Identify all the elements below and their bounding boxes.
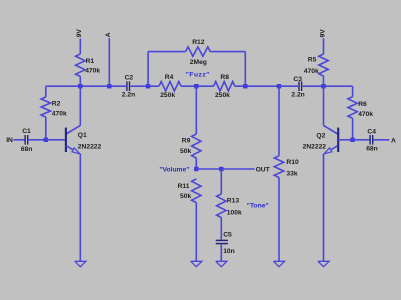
- wire rail to R9: [195, 86, 197, 134]
- wire volume to tone node: [196, 168, 221, 170]
- wire IN to C1: [13, 139, 25, 141]
- svg-text:"Tone": "Tone": [247, 203, 269, 210]
- wire loop top right: [210, 51, 245, 53]
- svg-text:C1: C1: [22, 128, 31, 135]
- svg-text:250k: 250k: [160, 92, 175, 99]
- node A stub: [107, 84, 111, 88]
- svg-text:68n: 68n: [21, 146, 33, 153]
- svg-text:Q1: Q1: [78, 132, 87, 139]
- wire R1 bottom: [79, 76, 81, 86]
- transistor Q2 2N2222: [303, 126, 353, 154]
- capacitor C3 2.2n: [291, 76, 304, 99]
- wire Q2 emitter to ground: [323, 154, 325, 261]
- svg-text:100k: 100k: [227, 210, 242, 217]
- resistor R1 470k: [76, 54, 101, 76]
- wire rail to R6 corner: [324, 85, 353, 87]
- svg-text:R12: R12: [192, 39, 205, 46]
- svg-text:A: A: [105, 32, 112, 37]
- node R10 branch: [277, 84, 281, 88]
- wire 9V to R5: [323, 38, 325, 54]
- svg-text:"Volume": "Volume": [159, 167, 189, 174]
- svg-text:9V: 9V: [76, 29, 83, 38]
- wire Q2 collector vertical: [323, 86, 325, 125]
- wire R10 to ground: [278, 178, 280, 262]
- wire to OUT: [221, 168, 254, 170]
- svg-text:IN: IN: [6, 137, 13, 144]
- svg-text:C3: C3: [293, 76, 302, 83]
- node R9 branch: [194, 84, 198, 88]
- capacitor C4 68n: [366, 128, 378, 152]
- svg-text:R4: R4: [165, 74, 174, 81]
- svg-text:2N2222: 2N2222: [78, 143, 102, 150]
- resistor R12 2Meg: [186, 39, 211, 66]
- svg-text:A: A: [391, 137, 396, 144]
- wire to C3: [279, 85, 298, 87]
- svg-text:50k: 50k: [180, 148, 191, 155]
- node volume wiper: [194, 167, 198, 171]
- node R5-Q2 collector: [321, 84, 325, 88]
- wire tone node to R13: [220, 169, 222, 194]
- net label Fuzz: [186, 72, 210, 79]
- node Q2 base junction: [350, 138, 354, 142]
- svg-text:OUT: OUT: [256, 167, 271, 174]
- svg-text:C2: C2: [125, 74, 134, 81]
- ground under R10: [273, 261, 284, 266]
- transistor Q1 2N2222: [46, 126, 102, 154]
- resistor R4 250k: [159, 74, 181, 99]
- ground under C5: [216, 261, 227, 266]
- capacitor C5 10n: [216, 232, 235, 255]
- resistor R13 100k: [217, 194, 242, 218]
- resistor R9 50k: [180, 134, 201, 158]
- svg-text:68n: 68n: [366, 146, 378, 153]
- svg-text:470k: 470k: [304, 68, 319, 75]
- svg-text:2.2n: 2.2n: [122, 92, 135, 99]
- wire node to C4: [353, 139, 370, 141]
- svg-text:R13: R13: [227, 197, 240, 204]
- svg-text:R8: R8: [220, 74, 229, 81]
- svg-text:2Meg: 2Meg: [190, 59, 207, 66]
- svg-text:R11: R11: [178, 183, 190, 190]
- wire A stub: [108, 38, 110, 86]
- wire C1 to node: [28, 139, 46, 141]
- wire rail left segment: [46, 85, 126, 87]
- wire Q1 collector vertical: [79, 86, 81, 125]
- wire Q1 emitter to ground: [79, 154, 81, 261]
- svg-text:C4: C4: [367, 128, 376, 135]
- port label OUT: [256, 167, 271, 174]
- resistor R10 33k: [274, 156, 299, 178]
- node R1-Q1 collector: [78, 84, 82, 88]
- svg-text:10n: 10n: [223, 248, 235, 255]
- wire R2 top corner: [45, 86, 47, 97]
- wire R6 bottom: [352, 118, 354, 140]
- capacitor C2 2.2n: [122, 74, 135, 98]
- wire loop top left: [148, 51, 185, 53]
- resistor R8 250k: [214, 74, 235, 99]
- node Q1 base junction: [44, 138, 48, 142]
- power label 9V left: [76, 29, 83, 38]
- svg-text:"Fuzz": "Fuzz": [186, 72, 210, 79]
- svg-text:R9: R9: [182, 137, 191, 144]
- svg-text:C5: C5: [223, 232, 232, 239]
- resistor R11 50k: [178, 179, 201, 203]
- node tone branch: [219, 167, 223, 171]
- ground under Q2: [318, 261, 329, 266]
- svg-text:R10: R10: [286, 159, 299, 166]
- svg-text:470k: 470k: [52, 110, 67, 117]
- wire R2 bottom: [45, 117, 47, 140]
- wire loop left vertical: [147, 52, 149, 87]
- net label A left: [105, 32, 112, 37]
- svg-text:2.2n: 2.2n: [291, 92, 304, 99]
- wire C3 to R5 node: [303, 85, 324, 87]
- svg-text:33k: 33k: [286, 170, 297, 177]
- svg-text:9V: 9V: [319, 29, 326, 38]
- wire R8 to loop right: [235, 85, 279, 87]
- ground under R11: [191, 261, 202, 266]
- node fuzz-loop left: [146, 84, 150, 88]
- resistor R2 470k: [41, 97, 67, 117]
- resistor R5 470k: [304, 54, 328, 76]
- svg-text:470k: 470k: [85, 68, 100, 75]
- svg-text:R1: R1: [86, 58, 95, 65]
- port label IN: [6, 137, 13, 144]
- svg-text:R6: R6: [358, 101, 367, 108]
- svg-text:R2: R2: [52, 101, 61, 108]
- net label Volume: [159, 167, 189, 174]
- wire rail to R10: [278, 86, 280, 156]
- wire to R4: [148, 85, 159, 87]
- wire C4 to A: [373, 139, 390, 141]
- wire R4 to R9 node: [181, 85, 214, 87]
- svg-text:R5: R5: [308, 57, 317, 64]
- svg-text:250k: 250k: [215, 92, 230, 99]
- wire R6 top: [352, 86, 354, 97]
- svg-text:2N2222: 2N2222: [303, 143, 327, 150]
- wire R13 to C5: [220, 218, 222, 240]
- node fuzz-loop right: [243, 84, 247, 88]
- wire R11 to ground: [195, 203, 197, 262]
- wire loop right vertical: [244, 52, 246, 87]
- svg-text:Q2: Q2: [316, 132, 325, 139]
- wire C2 to fuzz node: [131, 85, 149, 87]
- ground under Q1: [75, 261, 86, 266]
- svg-text:470k: 470k: [358, 111, 373, 118]
- power label 9V right: [319, 29, 326, 38]
- wire 9V to R1: [79, 38, 81, 54]
- capacitor C1: [21, 128, 33, 153]
- resistor R6 470k: [348, 97, 373, 119]
- svg-text:50k: 50k: [180, 193, 191, 200]
- port label A right: [391, 137, 396, 144]
- wire R5 bottom: [323, 76, 325, 86]
- net label Tone: [247, 203, 269, 210]
- wire C5 to ground: [220, 245, 222, 262]
- wire R9 to volume node: [195, 158, 197, 169]
